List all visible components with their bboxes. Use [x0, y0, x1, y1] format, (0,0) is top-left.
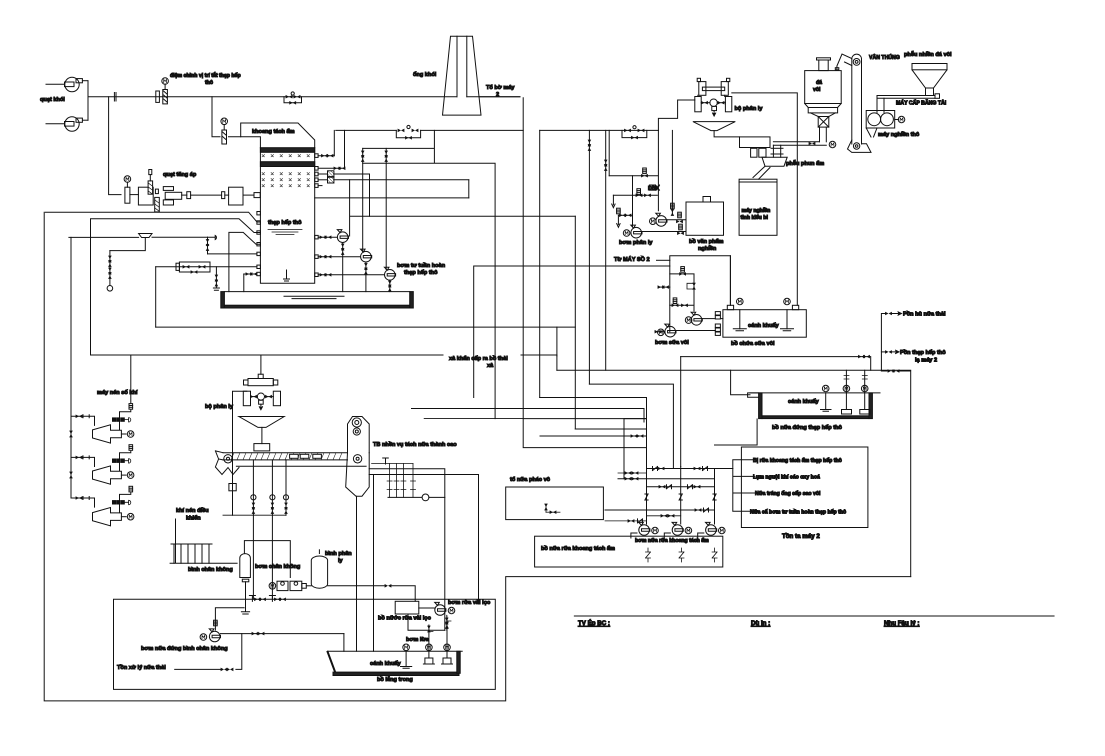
- wire separator left leg: [658, 100, 694, 130]
- center riser x536: [539, 130, 541, 397]
- center riser x589: [588, 130, 590, 384]
- tank nozzle flex 1: [315, 171, 370, 216]
- vacuum pump assembly: [269, 581, 311, 590]
- motor valve M2: [221, 118, 228, 144]
- svg-text:máy nghiền thô: máy nghiền thô: [878, 132, 920, 138]
- ball mill (may nghien tinh kieu bi): [739, 179, 777, 235]
- wire fan header: [88, 81, 520, 121]
- svg-text:nghiền: nghiền: [698, 246, 717, 252]
- spray rows: [262, 173, 310, 187]
- discharge link: [881, 369, 910, 576]
- svg-text:TB nhền vụ tách nữa thành cao: TB nhền vụ tách nữa thành cao: [373, 442, 457, 448]
- svg-text:thạp hếp thô: thạp hếp thô: [404, 269, 438, 276]
- svg-text:bơm nữa rữa khoang tách ẩm: bơm nữa rữa khoang tách ẩm: [635, 537, 709, 544]
- suction legs in tank: [646, 548, 718, 562]
- transfer valve line y356 left part: [91, 354, 444, 356]
- svg-text:Từ MÁY SỒ 2: Từ MÁY SỒ 2: [614, 256, 650, 263]
- tank feed line 2: [91, 219, 261, 233]
- wash pumps row: [631, 522, 725, 538]
- tank nozzle 3: [315, 184, 322, 188]
- svg-text:VÂN THÚNG: VÂN THÚNG: [869, 54, 900, 61]
- compressor C1: [71, 355, 134, 443]
- center riser x556: [556, 327, 558, 356]
- bundle line L2: [412, 408, 645, 410]
- tank feed line 3: [229, 232, 261, 291]
- lime feed from mill line: [474, 266, 670, 398]
- svg-text:bồ chứa sữa vôi: bồ chứa sữa vôi: [731, 341, 775, 347]
- bundle line L1: [540, 397, 647, 399]
- branch to chamber: [212, 97, 241, 137]
- compressor C2: [71, 445, 134, 485]
- svg-text:bơm sữa vôi: bơm sữa vôi: [655, 340, 689, 346]
- silo discharge elbow: [773, 127, 835, 148]
- svg-text:TV Ép BC :: TV Ép BC :: [578, 619, 610, 627]
- DBK valve: [649, 185, 659, 190]
- lime tank feed risers: [729, 256, 731, 306]
- svg-text:tổ nữa phác vô: tổ nữa phác vô: [510, 476, 551, 483]
- wash header from basin2: [715, 419, 758, 445]
- filter cloth wash box (bo nac rua vai loc): [395, 601, 455, 630]
- basin2 feed: [731, 370, 868, 395]
- svg-text:vôi: vôi: [813, 87, 821, 93]
- upper distribution line: [336, 129, 659, 131]
- svg-text:Tồn ta máy 2: Tồn ta máy 2: [782, 533, 820, 540]
- svg-text:bình chân không: bình chân không: [188, 567, 233, 573]
- requirements box: [741, 447, 868, 528]
- feed pump (bom nua dung binh chan khong): [175, 629, 344, 671]
- svg-text:bồ nữa rữa khoang tách ẩm: bồ nữa rữa khoang tách ẩm: [541, 545, 615, 552]
- svg-text:máy nghiền: máy nghiền: [742, 208, 771, 214]
- separator feed pump P4: [650, 212, 687, 226]
- chimney (ong khoi): [443, 36, 521, 115]
- tank inlet stub 2: [257, 221, 261, 224]
- center riser x680: [680, 357, 682, 467]
- tie bus: [733, 460, 755, 511]
- center riser x673: [589, 384, 673, 468]
- link label to drop: [521, 355, 557, 370]
- demister band 1: [260, 148, 314, 157]
- svg-text:xả: xả: [487, 363, 494, 369]
- bypass B1 on flue: [284, 92, 302, 105]
- bundle line L3b: [523, 418, 646, 420]
- vacuum receiver comb: [170, 519, 237, 563]
- separator U1 (bo phan ly top): [693, 78, 735, 130]
- svg-text:khiển: khiển: [186, 515, 201, 522]
- booster fan (quat tang ap): [130, 170, 260, 212]
- svg-text:bồ nữa đứng thạp hếp thô: bồ nữa đứng thạp hếp thô: [772, 424, 843, 431]
- filter head tower: [346, 417, 370, 497]
- recirculation pump P1: [337, 180, 575, 292]
- tank drain symbol: [284, 270, 290, 281]
- lime pump P6: [685, 312, 723, 325]
- svg-text:khí nén điều: khí nén điều: [176, 508, 209, 514]
- chamber outlet A: [315, 130, 335, 157]
- wire U2 left leg: [233, 391, 247, 515]
- pump suction stubs: [315, 235, 385, 276]
- limestone silo (da voi): [805, 58, 842, 127]
- title separator line: [574, 615, 1054, 617]
- svg-text:thô: thô: [205, 80, 213, 86]
- lime pump P7: [655, 324, 721, 337]
- recirculation pump P3: [384, 148, 395, 291]
- svg-text:Nữa tráng ống cấp sao vôi: Nữa tráng ống cấp sao vôi: [755, 490, 821, 497]
- tank inlet stub 1: [257, 212, 261, 215]
- lime milk tank (bo chua sua voi): [723, 298, 806, 337]
- svg-text:tinh kiểu bi: tinh kiểu bi: [741, 214, 769, 221]
- drain arrows left: [612, 189, 658, 228]
- enclosure drain loop: [44, 212, 911, 701]
- feed drop to manifold: [624, 409, 647, 479]
- svg-text:Dù ỉn :: Dù ỉn :: [751, 620, 770, 627]
- bucket elevator (van thang): [835, 54, 871, 152]
- wash tank box (bo nua rua khoang tach am): [535, 536, 723, 567]
- wire separator to silo riser: [732, 93, 798, 305]
- svg-text:điệm chỉnh vị trí tắt thạp hế: điệm chỉnh vị trí tắt thạp hếp: [170, 72, 241, 79]
- overflow line right: [315, 197, 469, 199]
- svg-text:lạ máy 2: lạ máy 2: [915, 358, 937, 364]
- svg-text:xả khẩn cấp ra bồ thải: xả khẩn cấp ra bồ thải: [449, 355, 508, 362]
- inner water box: [114, 599, 496, 689]
- motor valve M1 (diem chinh): [156, 78, 169, 104]
- waste riser: [881, 312, 901, 371]
- svg-text:bơm chân không: bơm chân không: [255, 564, 301, 570]
- svg-text:khoang tách ẩm: khoang tách ẩm: [252, 128, 295, 135]
- riser x672: [671, 130, 675, 216]
- wire ta may so 2: [657, 259, 670, 261]
- acid water box (to nua phac vo): [506, 487, 604, 520]
- slurry pump P5 (bom phan ly): [623, 224, 686, 238]
- main feed with valve cluster: [156, 262, 261, 327]
- return line to stub7: [244, 272, 261, 291]
- svg-text:2: 2: [496, 92, 499, 98]
- mill product tank (bo van pham nghien): [686, 197, 724, 236]
- water level symbol: [268, 230, 302, 235]
- supply valves: [69, 415, 82, 500]
- bypass B2: [396, 125, 420, 139]
- svg-text:bồ nữớc rửa vải lọc: bồ nữớc rửa vải lọc: [378, 616, 431, 622]
- air supply main: [71, 220, 91, 499]
- svg-text:bơm lừa: bơm lừa: [406, 637, 430, 643]
- center riser x575: [574, 216, 576, 429]
- crusher feed hopper (pheu nhien da voi): [912, 64, 947, 96]
- wash water manifold rows: [605, 467, 733, 523]
- riser x598: [604, 130, 609, 370]
- filter discharge columns: [357, 475, 374, 652]
- separator pump header: [633, 130, 659, 227]
- svg-text:Lụm nguội khí cáo oxy hoá: Lụm nguội khí cáo oxy hoá: [753, 475, 820, 481]
- control box on leg: [229, 484, 236, 491]
- drain drop x=216: [213, 267, 219, 290]
- svg-text:cánh khuấy: cánh khuấy: [370, 660, 402, 667]
- seal pot: [236, 458, 444, 501]
- svg-text:quạt khói: quạt khói: [40, 97, 65, 103]
- DBK riser: [588, 140, 633, 176]
- vacuum drop line: [215, 608, 244, 630]
- wire separator funnel down: [714, 131, 739, 137]
- drop with valves to stub5: [206, 237, 261, 255]
- vacuum vessel 2 (binh phan ly): [311, 550, 415, 602]
- svg-text:bơm nữa đứng bình chân không: bơm nữa đứng bình chân không: [141, 646, 228, 652]
- bundle line L4: [575, 428, 646, 430]
- svg-text:bộ phân ly: bộ phân ly: [735, 106, 764, 112]
- center riser x515: [523, 98, 646, 448]
- hanging drains: [251, 460, 289, 599]
- vacuum vessel 1: [240, 541, 290, 614]
- svg-text:Bị rữa khoang tách ẩm thạp hếp: Bị rữa khoang tách ẩm thạp hếp thô: [753, 457, 842, 464]
- svg-text:thạp hếp thô: thạp hếp thô: [268, 219, 302, 226]
- svg-text:Pồn thạp hếp thô: Pồn thạp hếp thô: [900, 349, 946, 356]
- moisture chamber (khoang tach am): [241, 123, 315, 148]
- bundle line L5: [540, 435, 647, 437]
- filtrate headers: [369, 469, 478, 631]
- T-valve 1 on box top: [249, 596, 266, 602]
- svg-text:Pồn hủ nữa thải: Pồn hủ nữa thải: [903, 312, 946, 318]
- svg-text:MÁY CẤP BĂNG TẢI: MÁY CẤP BĂNG TẢI: [896, 100, 947, 107]
- overflow to riser: [681, 355, 871, 370]
- svg-text:đá: đá: [816, 80, 822, 86]
- svg-text:bồ lắng trong: bồ lắng trong: [377, 676, 413, 683]
- svg-text:ống khói: ống khói: [413, 71, 437, 78]
- svg-text:Nữa cấ bơm tư tuần hoàn thạp h: Nữa cấ bơm tư tuần hoàn thạp hếp thô: [750, 508, 846, 515]
- drain leg x107: [107, 251, 113, 292]
- valve V1 on flue: [114, 93, 116, 102]
- svg-text:ly: ly: [338, 558, 344, 564]
- T-valve 2 on box top: [269, 596, 286, 602]
- compressor C3: [71, 486, 134, 525]
- svg-text:phễu phun ẩm: phễu phun ẩm: [786, 160, 824, 167]
- svg-text:cánh khuấy: cánh khuấy: [788, 398, 820, 405]
- svg-text:DBK: DBK: [648, 186, 659, 192]
- roll crusher (may nghien tho): [866, 111, 905, 138]
- smoke fan 1 (quat khoi top): [46, 77, 88, 91]
- svg-text:Tổ bờ máy: Tổ bờ máy: [486, 84, 515, 91]
- transfer arrow 2: [881, 350, 899, 354]
- small drain row under belt: [372, 464, 416, 498]
- svg-text:bơm phân ly: bơm phân ly: [619, 240, 653, 246]
- svg-text:Tồn xử lý nữa thải: Tồn xử lý nữa thải: [117, 665, 166, 671]
- basin outlet loop: [156, 326, 576, 328]
- svg-text:bơm rửa vải lọc: bơm rửa vải lọc: [448, 600, 490, 606]
- lime branch 1: [670, 267, 696, 311]
- svg-text:quạt tăng áp: quạt tăng áp: [163, 172, 197, 178]
- svg-text:bình phân: bình phân: [325, 551, 352, 557]
- underflow trough basin: [221, 292, 414, 308]
- vacuum belt filter (TB nhen vu tach nua thanh cao): [215, 451, 347, 475]
- svg-text:phễu nhiền đá vôi: phễu nhiền đá vôi: [904, 51, 952, 58]
- svg-text:cánh khuấy: cánh khuấy: [748, 322, 780, 329]
- separator U2 (bo phan ly lower): [239, 374, 284, 451]
- wire U2 top to transfer: [260, 355, 262, 374]
- tank inlet stub 3: [257, 231, 261, 234]
- lime header: [670, 256, 731, 332]
- svg-text:bồ văn phẩm: bồ văn phẩm: [689, 238, 724, 245]
- bundle line L3: [424, 418, 523, 420]
- riser links to flue line: [363, 130, 495, 418]
- khi nen line: [223, 491, 286, 515]
- svg-text:bơm tư tuần hoàn: bơm tư tuần hoàn: [397, 263, 446, 269]
- slurry basin 2 (bo nua dung thap hep tho): [748, 385, 880, 418]
- wet spray hopper (pheu phun am): [753, 145, 787, 179]
- chamber outlet B: [315, 130, 346, 170]
- booster motor valve M3: [124, 176, 131, 204]
- bypass B3: [622, 126, 647, 140]
- riser Z columns: [645, 398, 716, 525]
- lime branch 2: [658, 285, 694, 307]
- tank feed line 1: [45, 212, 260, 222]
- tank inlet stub 4: [257, 243, 261, 246]
- svg-text:bộ phân ly: bộ phân ly: [205, 404, 234, 410]
- smoke fan 2 (quat khoi bottom): [46, 117, 88, 131]
- svg-text:máy nén số khí: máy nén số khí: [97, 389, 138, 396]
- transfer line y370: [557, 369, 911, 371]
- drain funnel symbol: [69, 234, 217, 251]
- clarifier (bo lang trong): [328, 617, 463, 676]
- belt feeder (may cap bang tai): [877, 94, 940, 113]
- raw slurry tank walls (thap hep tho): [260, 148, 314, 284]
- svg-text:Nhu Fậu lý :: Nhu Fậu lý :: [884, 620, 919, 627]
- booster fan branch wire: [109, 97, 121, 195]
- mill feeder: [740, 137, 771, 157]
- recirculation pump P2: [361, 148, 372, 291]
- demister band 2: [260, 162, 314, 167]
- tank nozzle flex 2: [315, 177, 469, 198]
